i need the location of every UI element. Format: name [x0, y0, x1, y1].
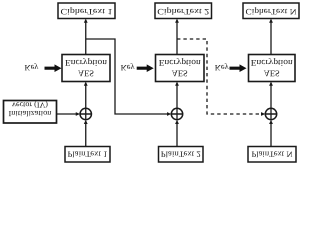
svg-text:AES: AES: [78, 69, 94, 79]
XOR node 3: [265, 108, 276, 119]
wire IV to XOR1 with arrowhead: [57, 112, 81, 116]
svg-text:PlainText 2: PlainText 2: [161, 150, 201, 159]
wire XOR1 to AES1 with arrowhead: [84, 82, 88, 120]
box AES Encryption U2: [156, 55, 205, 82]
wire AES3 to CipherTextN with arrowhead: [269, 19, 273, 55]
svg-text:vector (IV): vector (IV): [12, 101, 48, 110]
box AES Encryption U1: [62, 55, 110, 82]
svg-text:CipherText 2: CipherText 2: [157, 7, 209, 16]
box CipherText 2: [155, 3, 212, 19]
svg-text:CipherText 1: CipherText 1: [61, 7, 113, 16]
svg-text:Encryption: Encryption: [65, 58, 108, 68]
svg-text:PlainText N: PlainText N: [252, 150, 293, 159]
feedback wire block1 to XOR2 (solid) with arrowhead: [86, 39, 168, 114]
box CipherText 1: [58, 3, 115, 19]
whole diagram drawn in normal orientation, flipped vertically to match target: [4, 3, 300, 162]
wire AES2 to CipherText2 with arrowhead: [175, 19, 179, 55]
svg-text:Encryption: Encryption: [251, 58, 294, 68]
thick key arrow 1: [45, 64, 62, 72]
wire PlainText1 to XOR1 with arrowhead: [84, 120, 88, 147]
box PlainText N: [248, 147, 296, 163]
box PlainText 1: [65, 147, 110, 163]
svg-text:AES: AES: [172, 69, 188, 79]
thick key arrow 2: [137, 64, 154, 72]
thick key arrow 3: [230, 64, 247, 72]
svg-text:Key: Key: [215, 63, 230, 72]
svg-text:Key: Key: [121, 63, 136, 72]
box Initialization vector (IV): [4, 101, 57, 124]
svg-text:Key: Key: [25, 63, 40, 72]
XOR node 2: [171, 108, 182, 119]
svg-text:AES: AES: [264, 69, 280, 79]
wire XOR2 to AES2 with arrowhead: [175, 82, 179, 120]
svg-text:PlainText 1: PlainText 1: [68, 150, 108, 159]
svg-text:Encryption: Encryption: [159, 58, 202, 68]
wire PlainText2 to XOR2 with arrowhead: [175, 120, 179, 147]
XOR node 1: [80, 108, 91, 119]
svg-text:CipherText N: CipherText N: [246, 7, 297, 16]
feedback wire block2 to XOR3 (dashed) with arrowhead: [177, 39, 262, 114]
wire XOR3 to AES3 with arrowhead: [269, 82, 273, 120]
box AES Encryption U3: [249, 55, 296, 82]
box PlainText 2: [159, 147, 204, 163]
wire AES1 to CipherText1 with arrowhead: [84, 19, 88, 55]
wire PlainTextN to XOR3 with arrowhead: [269, 120, 273, 147]
box CipherText N: [243, 3, 299, 19]
